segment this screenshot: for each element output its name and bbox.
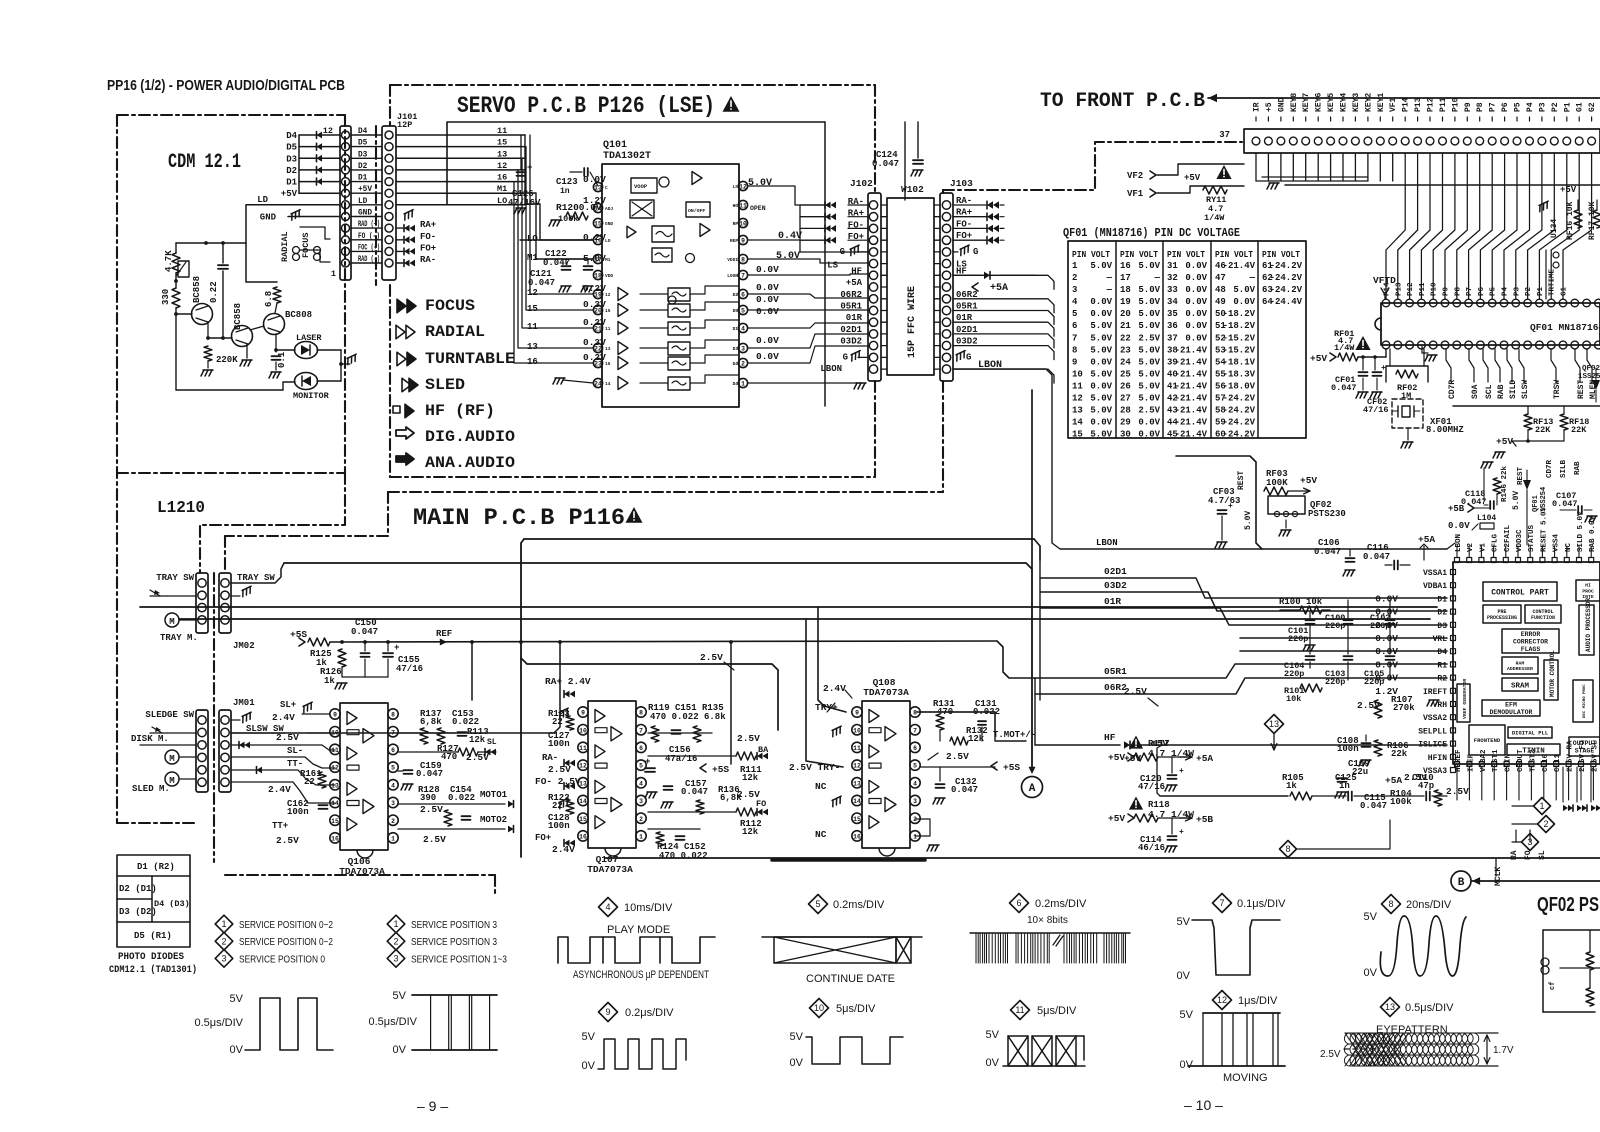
svg-text:15: 15 (331, 818, 339, 825)
svg-text:0.2V: 0.2V (583, 317, 606, 328)
svg-text:LASER: LASER (296, 333, 322, 343)
svg-text:VDBA1: VDBA1 (1423, 582, 1447, 591)
svg-text:FO-: FO- (420, 232, 436, 242)
svg-text:TDA7073A: TDA7073A (863, 687, 909, 698)
svg-text:CORRECTOR: CORRECTOR (1513, 639, 1548, 646)
svg-text:+5A: +5A (846, 278, 863, 288)
svg-text:-21.4V: -21.4V (1175, 357, 1208, 367)
svg-text:6: 6 (741, 292, 745, 299)
svg-text:14: 14 (1072, 418, 1083, 428)
svg-text:QF01: QF01 (1532, 495, 1540, 512)
svg-text:RESET 5.0V: RESET 5.0V (1540, 506, 1548, 552)
svg-text:QF01 (MN18716) PIN DC VOLTAGE: QF01 (MN18716) PIN DC VOLTAGE (1063, 227, 1240, 240)
svg-text:+5V: +5V (1184, 173, 1201, 183)
svg-text:32: 32 (1167, 273, 1178, 283)
svg-text:L104: L104 (1477, 514, 1496, 523)
svg-text:7: 7 (741, 273, 745, 280)
svg-text:PLAY MODE: PLAY MODE (607, 924, 670, 936)
svg-text:—: — (1106, 285, 1113, 295)
svg-text:16: 16 (579, 834, 587, 841)
svg-text:11: 11 (1015, 1005, 1024, 1015)
svg-text:-15.2V: -15.2V (1223, 345, 1256, 355)
svg-text:7: 7 (913, 727, 917, 734)
svg-text:0.0V: 0.0V (756, 282, 779, 293)
svg-text:01R: 01R (1104, 596, 1121, 607)
svg-text:C2FAIL: C2FAIL (1504, 524, 1512, 552)
svg-text:TRSW: TRSW (1553, 380, 1562, 399)
svg-text:CRIN: CRIN (1505, 754, 1513, 772)
svg-text:MOTO1: MOTO1 (480, 790, 508, 800)
svg-text:0.2ms/DIV: 0.2ms/DIV (833, 899, 885, 911)
svg-text:0.0V: 0.0V (1185, 261, 1207, 271)
svg-text:8: 8 (1072, 345, 1077, 355)
svg-text:G: G (973, 247, 978, 257)
svg-text:12: 12 (853, 763, 861, 770)
svg-text:TURNTABLE: TURNTABLE (425, 350, 515, 368)
svg-text:S0A: S0A (1471, 384, 1480, 399)
svg-text:+: + (1179, 767, 1184, 776)
svg-text:IREF: IREF (1467, 753, 1475, 772)
svg-text:0.0V: 0.0V (1185, 273, 1207, 283)
svg-text:+5V: +5V (1300, 475, 1317, 486)
svg-text:5.0V: 5.0V (1138, 297, 1160, 307)
svg-text:100n: 100n (287, 807, 309, 817)
svg-text:P4: P4 (1502, 286, 1510, 296)
svg-text:2: 2 (1543, 819, 1548, 829)
svg-text:11: 11 (1072, 382, 1083, 392)
svg-text:2.5V FO: 2.5V FO (1579, 740, 1587, 772)
svg-text:GND: GND (1277, 97, 1286, 112)
svg-text:13: 13 (1269, 719, 1279, 729)
svg-text:0.0V: 0.0V (1090, 297, 1112, 307)
svg-text:03D2: 03D2 (840, 337, 862, 347)
svg-text:P7: P7 (1466, 287, 1474, 296)
svg-text:+5V: +5V (1496, 436, 1513, 447)
svg-text:TDA1302T: TDA1302T (603, 151, 651, 162)
svg-text:0.047: 0.047 (951, 785, 978, 795)
svg-text:IR: IR (1253, 102, 1262, 112)
svg-text:5.0V: 5.0V (1512, 491, 1521, 510)
svg-text:VF1: VF1 (1389, 97, 1398, 112)
svg-text:CL16: CL16 (1542, 753, 1550, 772)
svg-text:10: 10 (814, 1003, 824, 1013)
svg-text:JM02: JM02 (233, 641, 255, 651)
svg-text:KEY8: KEY8 (1290, 93, 1299, 112)
svg-text:22: 22 (552, 801, 563, 811)
svg-text:SLED: SLED (425, 376, 465, 394)
svg-text:05R1: 05R1 (840, 302, 862, 312)
svg-text:02D1: 02D1 (840, 325, 862, 335)
svg-text:+5V: +5V (1108, 752, 1125, 763)
svg-text:M: M (169, 617, 174, 627)
svg-text:RA+: RA+ (420, 220, 436, 230)
svg-text:2.5V: 2.5V (1124, 686, 1147, 697)
svg-text:RA-: RA- (542, 753, 558, 763)
svg-text:EFM: EFM (1505, 702, 1517, 709)
svg-text:VSSA2: VSSA2 (1423, 714, 1447, 723)
svg-text:3: 3 (741, 346, 745, 353)
svg-text:0.047: 0.047 (528, 278, 555, 288)
svg-text:0V: 0V (1177, 970, 1191, 982)
svg-text:P13: P13 (1414, 97, 1423, 112)
svg-text:2: 2 (639, 816, 643, 823)
svg-text:R146 22k: R146 22k (1501, 465, 1509, 502)
svg-text:R1: R1 (1437, 661, 1447, 670)
svg-text:C: C (605, 185, 608, 191)
svg-text:HI: HI (1585, 583, 1591, 589)
svg-text:31: 31 (1167, 261, 1178, 271)
svg-text:0.0V: 0.0V (756, 306, 779, 317)
svg-text:J102: J102 (850, 178, 873, 189)
svg-text:SLSW: SLSW (1521, 380, 1530, 399)
svg-text:LO: LO (527, 234, 538, 244)
svg-text:0.0V: 0.0V (1233, 297, 1255, 307)
svg-text:15P FFC WIRE: 15P FFC WIRE (907, 286, 918, 358)
svg-text:3: 3 (639, 798, 643, 805)
svg-text:MOTO2: MOTO2 (480, 815, 507, 825)
svg-text:PIN VOLT: PIN VOLT (1167, 250, 1206, 260)
svg-text:HG: HG (733, 203, 739, 209)
svg-text:4: 4 (913, 780, 917, 787)
svg-text:RAB: RAB (1497, 384, 1506, 399)
svg-text:1: 1 (391, 836, 395, 843)
svg-text:P6: P6 (1478, 286, 1486, 296)
svg-text:-15.2V: -15.2V (1223, 333, 1256, 343)
svg-text:P14: P14 (1402, 97, 1411, 112)
svg-text:CDM12.1 (TAD1301): CDM12.1 (TAD1301) (109, 964, 197, 976)
svg-text:5.0V: 5.0V (1138, 382, 1160, 392)
svg-text:CFLG: CFLG (1492, 533, 1500, 552)
svg-text:0.2V: 0.2V (583, 232, 606, 243)
svg-text:-24.2V: -24.2V (1223, 394, 1256, 404)
svg-text:8: 8 (639, 710, 643, 717)
svg-text:10: 10 (1072, 369, 1083, 379)
svg-text:+5V: +5V (1310, 353, 1327, 364)
svg-text:5V: 5V (230, 993, 244, 1005)
svg-text:2: 2 (391, 818, 395, 825)
svg-text:470 0.022 6.8k: 470 0.022 6.8k (650, 712, 726, 722)
svg-text:220K: 220K (216, 355, 238, 365)
svg-text:P1: P1 (1563, 102, 1572, 112)
svg-text:47/16: 47/16 (1363, 405, 1389, 415)
svg-text:FO+: FO+ (535, 833, 551, 843)
svg-text:0.047: 0.047 (1331, 383, 1357, 393)
svg-text:D1: D1 (286, 178, 297, 188)
svg-text:KEY4: KEY4 (1340, 93, 1349, 112)
svg-text:0.5μs/DIV: 0.5μs/DIV (368, 1016, 417, 1028)
svg-text:0.5μs/DIV: 0.5μs/DIV (194, 1017, 243, 1029)
svg-text:0.2ms/DIV: 0.2ms/DIV (1035, 898, 1087, 910)
svg-text:25: 25 (1120, 369, 1131, 379)
svg-text:3: 3 (913, 798, 917, 805)
svg-text:0.1μs/DIV: 0.1μs/DIV (1237, 898, 1286, 910)
svg-text:-21.4V: -21.4V (1175, 345, 1208, 355)
svg-text:47/16: 47/16 (396, 664, 423, 674)
svg-text:3: 3 (391, 800, 395, 807)
svg-text:SERVICE POSITION 3: SERVICE POSITION 3 (411, 919, 497, 931)
svg-text:2: 2 (741, 361, 745, 368)
svg-text:5: 5 (639, 763, 643, 770)
svg-text:8: 8 (913, 710, 917, 717)
svg-text:KEY3: KEY3 (1352, 93, 1361, 112)
svg-text:5μs/DIV: 5μs/DIV (1037, 1005, 1077, 1017)
svg-text:SERVICE POSITION 3: SERVICE POSITION 3 (411, 936, 497, 948)
svg-text:-21.4V: -21.4V (1175, 382, 1208, 392)
svg-text:P11: P11 (1419, 282, 1427, 296)
svg-text:19: 19 (1120, 297, 1131, 307)
svg-text:5V: 5V (1180, 1009, 1194, 1021)
svg-text:4: 4 (1072, 297, 1078, 307)
svg-text:4: 4 (391, 782, 395, 789)
svg-text:5.0V: 5.0V (1138, 369, 1160, 379)
svg-text:12k: 12k (968, 734, 985, 744)
svg-text:1: 1 (1539, 801, 1544, 811)
svg-text:1/4W: 1/4W (1334, 343, 1355, 353)
svg-text:1μs/DIV: 1μs/DIV (1238, 995, 1278, 1007)
svg-text:D5 (R1): D5 (R1) (134, 931, 172, 941)
svg-text:NC: NC (815, 829, 827, 840)
svg-text:28: 28 (1120, 406, 1131, 416)
svg-text:FO+: FO+ (420, 243, 436, 253)
svg-text:1k: 1k (324, 676, 335, 686)
svg-text:10: 10 (853, 727, 861, 734)
svg-text:+5B: +5B (1196, 814, 1213, 825)
svg-text:PIN VOLT: PIN VOLT (1120, 250, 1159, 260)
svg-text:14: 14 (853, 798, 861, 805)
svg-text:TO FRONT P.C.B: TO FRONT P.C.B (1040, 90, 1205, 113)
svg-text:+5S: +5S (1003, 762, 1020, 773)
svg-text:2.5V SL: 2.5V SL (1591, 740, 1599, 772)
svg-text:+5A: +5A (1196, 753, 1213, 764)
svg-text:D1 (R2): D1 (R2) (137, 862, 175, 872)
svg-text:0.0V: 0.0V (756, 335, 779, 346)
svg-text:-18.2V: -18.2V (1223, 309, 1256, 319)
svg-text:LS: LS (733, 184, 739, 190)
svg-text:C123: C123 (556, 177, 578, 187)
svg-text:15: 15 (527, 304, 538, 314)
svg-text:1: 1 (393, 919, 398, 929)
svg-text:2: 2 (221, 936, 226, 946)
svg-text:P7: P7 (1489, 102, 1498, 112)
svg-text:0.0V: 0.0V (1375, 593, 1398, 604)
svg-text:5V: 5V (790, 1031, 804, 1043)
svg-text:2.4V: 2.4V (552, 844, 575, 855)
svg-text:SELPLL: SELPLL (1418, 727, 1447, 736)
svg-text:1/4W: 1/4W (1204, 213, 1225, 223)
svg-text:12: 12 (527, 288, 538, 298)
svg-text:8.00MHZ: 8.00MHZ (1426, 425, 1464, 435)
svg-text:VREF GENERATOR: VREF GENERATOR (1462, 679, 1468, 719)
svg-text:1k: 1k (1286, 781, 1297, 791)
svg-text:P2: P2 (1551, 102, 1560, 112)
svg-text:0V: 0V (986, 1057, 1000, 1069)
svg-text:13: 13 (331, 782, 339, 789)
svg-text:HFREF: HFREF (1455, 749, 1463, 772)
svg-text:2.5V: 2.5V (1320, 1049, 1341, 1060)
svg-text:—: — (1154, 273, 1161, 283)
svg-text:CONTINUE DATE: CONTINUE DATE (806, 973, 895, 985)
svg-text:FRONTEND: FRONTEND (1474, 737, 1501, 744)
svg-text:ANA.AUDIO: ANA.AUDIO (425, 454, 515, 472)
svg-text:ERROR: ERROR (1521, 631, 1541, 638)
svg-text:P11: P11 (1439, 97, 1448, 112)
svg-text:BC858: BC858 (192, 276, 202, 303)
svg-text:2.5V RA: 2.5V RA (1567, 740, 1575, 772)
svg-text:0.0V: 0.0V (1138, 430, 1160, 440)
svg-text:-24.2V: -24.2V (1223, 406, 1256, 416)
svg-text:INTE: INTE (1582, 594, 1594, 600)
svg-text:HF (RF): HF (RF) (425, 402, 495, 420)
svg-text:15: 15 (605, 308, 611, 314)
svg-text:0.0V: 0.0V (1185, 333, 1207, 343)
svg-text:VDD: VDD (605, 273, 613, 279)
svg-text:5: 5 (1072, 309, 1077, 319)
svg-text:0V: 0V (790, 1057, 804, 1069)
svg-text:10ms/DIV: 10ms/DIV (624, 902, 673, 914)
svg-text:5.0V: 5.0V (1138, 285, 1160, 295)
svg-text:P5: P5 (1490, 286, 1498, 296)
svg-text:LBON: LBON (1096, 538, 1118, 548)
svg-text:-24.2V: -24.2V (1223, 430, 1256, 440)
svg-text:+: + (1381, 364, 1386, 373)
svg-text:0.0V: 0.0V (1375, 633, 1398, 644)
svg-text:– 9 –: – 9 – (417, 1098, 448, 1114)
svg-text:PIN VOLT: PIN VOLT (1072, 250, 1111, 260)
svg-text:+5V: +5V (281, 189, 298, 199)
svg-text:SL-: SL- (287, 746, 303, 756)
svg-text:+5A: +5A (1418, 534, 1435, 545)
svg-text:9: 9 (605, 1007, 610, 1017)
svg-text:100n: 100n (548, 739, 570, 749)
svg-text:SILD 5.0V: SILD 5.0V (1577, 511, 1585, 552)
svg-text:5μs/DIV: 5μs/DIV (836, 1003, 876, 1015)
svg-text:5.0V: 5.0V (1090, 430, 1112, 440)
svg-text:12: 12 (579, 763, 587, 770)
svg-text:12: 12 (739, 184, 747, 191)
svg-text:Q101: Q101 (603, 140, 627, 151)
svg-text:22: 22 (552, 717, 563, 727)
svg-text:13: 13 (1072, 406, 1083, 416)
svg-text:2.5V: 2.5V (420, 804, 443, 815)
svg-text:ASYNCHRONOUS μP DEPENDENT: ASYNCHRONOUS μP DEPENDENT (573, 969, 709, 981)
svg-text:24: 24 (1120, 357, 1131, 367)
svg-text:24: 24 (594, 381, 602, 388)
svg-text:100k: 100k (558, 214, 578, 224)
svg-text:15: 15 (1072, 430, 1083, 440)
svg-text:P2: P2 (1525, 286, 1533, 296)
svg-text:0.5μs/DIV: 0.5μs/DIV (1405, 1002, 1454, 1014)
svg-text:16: 16 (331, 836, 339, 843)
svg-text:17: 17 (1120, 273, 1131, 283)
svg-text:TEST2: TEST2 (1529, 749, 1537, 772)
svg-text:5.0V: 5.0V (1090, 333, 1112, 343)
svg-text:10k: 10k (1286, 694, 1301, 704)
svg-text:TDA7073A: TDA7073A (587, 864, 633, 875)
svg-text:G: G (843, 352, 848, 362)
svg-text:9: 9 (581, 710, 585, 717)
svg-text:DEMODULATOR: DEMODULATOR (1490, 709, 1533, 716)
svg-text:G: G (966, 352, 971, 362)
svg-text:GND: GND (605, 221, 613, 227)
svg-text:0.0V: 0.0V (1448, 521, 1470, 531)
svg-text:P10: P10 (1431, 282, 1439, 296)
svg-text:SERVO P.C.B P126 (LSE): SERVO P.C.B P126 (LSE) (457, 93, 715, 119)
svg-text:BC808: BC808 (285, 310, 312, 320)
svg-text:+: + (394, 643, 399, 653)
svg-text:RF17 10K: RF17 10K (1588, 201, 1597, 240)
svg-text:6: 6 (913, 745, 917, 752)
svg-text:47/16V: 47/16V (508, 198, 541, 208)
svg-text:P12: P12 (1427, 97, 1436, 112)
svg-text:TRTIME: TRTIME (1549, 268, 1557, 296)
svg-text:5: 5 (913, 763, 917, 770)
svg-text:LO: LO (605, 238, 611, 244)
svg-text:TRAY SW: TRAY SW (237, 573, 275, 583)
svg-text:330: 330 (161, 289, 171, 305)
svg-text:5.0V: 5.0V (776, 251, 800, 262)
svg-text:0.3V: 0.3V (583, 337, 606, 348)
svg-text:V2: V2 (1467, 542, 1475, 552)
svg-text:J103: J103 (950, 178, 973, 189)
svg-text:11: 11 (331, 747, 339, 754)
svg-text:GND: GND (260, 213, 277, 223)
svg-text:-21.4V: -21.4V (1175, 430, 1208, 440)
svg-text:2: 2 (1072, 273, 1077, 283)
svg-text:0.047: 0.047 (351, 627, 378, 637)
svg-text:1: 1 (1072, 261, 1078, 271)
svg-text:12k: 12k (742, 773, 759, 783)
svg-text:0.0V: 0.0V (756, 351, 779, 362)
svg-text:-18.0V: -18.0V (1223, 382, 1256, 392)
svg-text:36: 36 (1167, 321, 1178, 331)
svg-text:P8: P8 (1454, 286, 1462, 296)
svg-text:SLEDGE SW: SLEDGE SW (145, 710, 194, 720)
svg-text:220p: 220p (1288, 634, 1308, 644)
svg-text:16: 16 (853, 834, 861, 841)
svg-text:7: 7 (639, 727, 643, 734)
svg-text:0.047: 0.047 (1461, 497, 1487, 507)
svg-text:BC858: BC858 (233, 303, 243, 330)
svg-text:1: 1 (639, 834, 643, 841)
svg-text:ADDRESSER: ADDRESSER (1507, 666, 1533, 672)
svg-text:FOCUS: FOCUS (425, 297, 475, 315)
svg-text:33: 33 (1167, 285, 1178, 295)
svg-text:5.0V: 5.0V (1090, 321, 1112, 331)
svg-text:D3 (D2): D3 (D2) (119, 907, 157, 917)
svg-text:8: 8 (741, 257, 745, 264)
svg-text:11: 11 (853, 745, 861, 752)
svg-text:D4: D4 (733, 361, 739, 367)
svg-text:12P: 12P (397, 120, 412, 130)
svg-text:SL+: SL+ (280, 700, 296, 710)
svg-text:0.047: 0.047 (1314, 547, 1341, 557)
svg-text:0.2μs/DIV: 0.2μs/DIV (625, 1007, 674, 1019)
svg-text:12k: 12k (469, 735, 486, 745)
svg-text:2.4V: 2.4V (823, 683, 846, 694)
svg-text:CONTROL PART: CONTROL PART (1491, 589, 1549, 598)
svg-text:0.0V: 0.0V (1090, 418, 1112, 428)
svg-text:23: 23 (1120, 345, 1131, 355)
svg-text:5V: 5V (1364, 911, 1378, 923)
svg-text:12: 12 (1072, 394, 1083, 404)
svg-text:P9: P9 (1464, 102, 1473, 112)
svg-text:0V: 0V (1180, 1059, 1194, 1071)
svg-text:220p: 220p (1364, 677, 1384, 687)
svg-text:220p: 220p (1370, 621, 1390, 631)
svg-text:1: 1 (741, 381, 745, 388)
svg-text:M: M (169, 776, 174, 786)
svg-text:-24.2V: -24.2V (1270, 261, 1303, 271)
